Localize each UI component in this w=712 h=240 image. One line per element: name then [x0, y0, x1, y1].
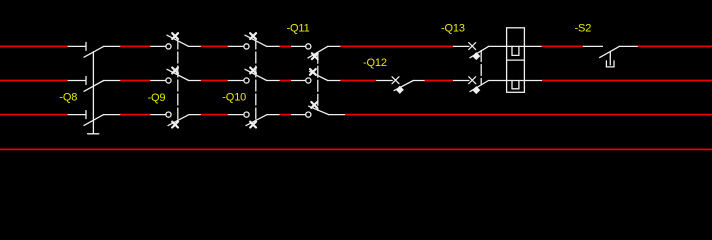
wire N rail: [0, 148, 712, 150]
svg-text:-Q8: -Q8: [59, 92, 77, 104]
circuit breaker Q10: [228, 33, 279, 127]
circuit breaker Q9: [151, 33, 201, 127]
circuit breaker Q11: [292, 44, 345, 117]
svg-text:-S2: -S2: [575, 23, 592, 35]
svg-text:-Q10: -Q10: [222, 92, 246, 104]
fuse base F1: [507, 28, 542, 93]
contactor contact Q12: [377, 77, 424, 93]
svg-text:-Q9: -Q9: [148, 92, 166, 104]
svg-text:-Q11: -Q11: [287, 23, 310, 35]
contactor Q13: [454, 43, 507, 94]
switch-disconnector Q8: [68, 42, 120, 133]
wire L2 rail segments: [0, 80, 712, 82]
svg-text:-Q13: -Q13: [441, 23, 465, 35]
manual switch S2: [584, 46, 638, 67]
wire L3 rail segments: [0, 114, 712, 116]
wire L1 rail segments: [0, 45, 712, 47]
svg-text:-Q12: -Q12: [363, 57, 387, 69]
